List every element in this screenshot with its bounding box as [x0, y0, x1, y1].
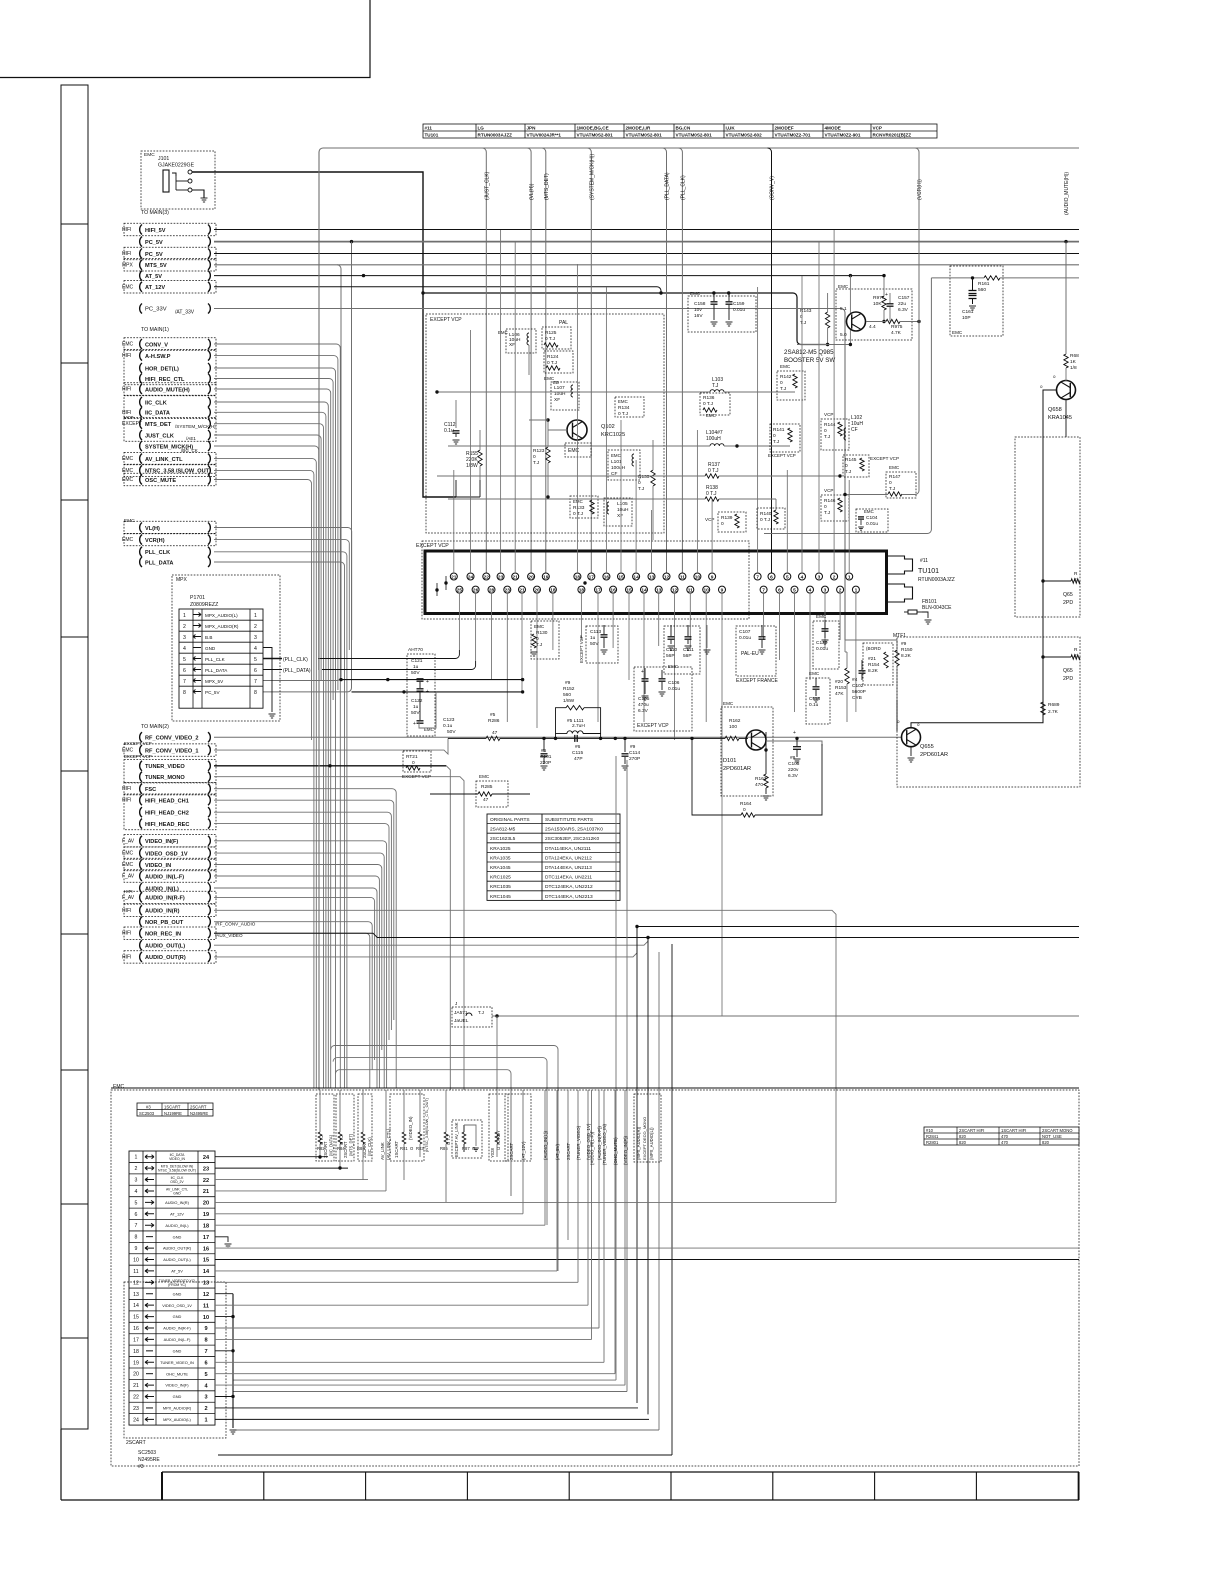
- wire SCART pin 23: [215, 1407, 638, 1409]
- transistor Q985 block: [836, 289, 912, 340]
- svg-text:10: 10: [203, 1315, 209, 1321]
- resistor R125: [542, 327, 571, 349]
- wire (VIDEO_OSD_1V): [587, 1090, 589, 1305]
- svg-text:PC_5V: PC_5V: [145, 240, 163, 246]
- svg-text:CYB: CYB: [852, 695, 862, 701]
- wire SCART pin 12: [215, 1281, 578, 1283]
- svg-text:XF: XF: [509, 342, 515, 348]
- svg-text:RTUN0003AJZZ: RTUN0003AJZZ: [918, 577, 955, 583]
- svg-text:EXCEPT VCP: EXCEPT VCP: [124, 754, 152, 759]
- svg-text:18: 18: [203, 1223, 209, 1229]
- svg-text:18: 18: [133, 1349, 139, 1355]
- svg-text:C120: C120: [816, 640, 828, 646]
- node AUDIO_IN(R-F): [140, 892, 142, 902]
- svg-text:6: 6: [135, 1212, 138, 1218]
- svg-text:5600P: 5600P: [852, 689, 866, 695]
- svg-text:22: 22: [133, 1395, 139, 1401]
- resistor R140: [757, 508, 785, 529]
- svg-text:VTUATM0Z2-901: VTUATM0Z2-901: [825, 133, 861, 138]
- svg-text:Q102: Q102: [601, 424, 615, 430]
- svg-text:19: 19: [543, 574, 549, 580]
- pin TU101 lower-left 4: [519, 586, 526, 593]
- svg-text:R125: R125: [545, 330, 557, 336]
- svg-text:470: 470: [755, 782, 763, 788]
- svg-text:EXCEPT VCP: EXCEPT VCP: [124, 741, 152, 746]
- transistor Q102 KRC1025: [567, 420, 587, 440]
- node HIFI_HEAD_CH2: [140, 807, 142, 817]
- svg-text:3: 3: [818, 574, 821, 580]
- svg-text:C159: C159: [733, 301, 745, 307]
- svg-text:EMC: EMC: [952, 330, 963, 335]
- page frame top-left block: [0, 0, 370, 78]
- svg-text:/AE1: /AE1: [186, 436, 196, 441]
- wire HIFI_REC_CTL: [214, 379, 333, 701]
- svg-text:C104: C104: [866, 515, 878, 521]
- svg-text:R162: R162: [729, 718, 741, 724]
- svg-text:0: 0: [638, 480, 641, 486]
- wire (VIDEO_IN(F)): [624, 1090, 626, 1385]
- svg-text:0: 0: [800, 314, 803, 320]
- svg-text:/AT_33V: /AT_33V: [175, 310, 195, 316]
- svg-text:EMC: EMC: [573, 499, 583, 504]
- pin TU101 lower-right 1: [776, 586, 783, 593]
- resistor R135: [651, 470, 655, 486]
- wire AUDIO_OUT pair right: [637, 926, 1079, 928]
- wire AUDIO_OUT(R): [214, 927, 637, 957]
- svg-text:EMC: EMC: [122, 456, 134, 462]
- capacitor C118: [806, 678, 830, 724]
- svg-text:EMC: EMC: [122, 537, 134, 543]
- svg-text:19: 19: [203, 1212, 209, 1218]
- svg-text:(AUDIO_MUTE(H)): (AUDIO_MUTE(H)): [1064, 172, 1070, 215]
- resistor R285: [476, 781, 508, 807]
- node HOR_DET(L): [140, 363, 142, 373]
- capacitor C112: [455, 400, 457, 428]
- svg-text:C123: C123: [443, 717, 455, 723]
- svg-text:IIC_CLK: IIC_CLK: [145, 400, 167, 406]
- svg-text:26: 26: [473, 588, 479, 594]
- svg-text:AV_LINK_CTL: AV_LINK_CTL: [145, 457, 183, 463]
- svg-text:L105: L105: [617, 501, 628, 507]
- tuner TU101: [425, 551, 887, 614]
- svg-text:0.1u: 0.1u: [809, 702, 819, 708]
- svg-text:18: 18: [550, 588, 556, 594]
- svg-text:NTSC_3.58(SLOW OUT): NTSC_3.58(SLOW OUT): [158, 1169, 196, 1173]
- svg-text:10K: 10K: [873, 301, 882, 307]
- svg-text:#3: #3: [146, 1104, 151, 1109]
- node NOR_REC_IN: [140, 928, 142, 938]
- svg-text:2SCART MONO: 2SCART MONO: [1042, 1128, 1073, 1133]
- resistor R81 1SCART: [390, 1094, 424, 1161]
- svg-text:0 T.J: 0 T.J: [708, 468, 719, 474]
- svg-text:EMC: EMC: [864, 509, 874, 514]
- svg-text:KRC1025: KRC1025: [601, 432, 625, 438]
- pin TU101 lower-mid 9: [719, 586, 726, 593]
- node A-H.SW.P: [140, 351, 142, 361]
- wire RF_CONV_VIDEO_2: [214, 736, 902, 738]
- capacitors C105 C106 EXCEPT VCP: [634, 667, 692, 731]
- svg-text:+: +: [413, 721, 416, 727]
- svg-text:TO MAIN(3): TO MAIN(3): [141, 210, 169, 216]
- node IIC_DATA: [140, 407, 142, 417]
- svg-text:XF: XF: [554, 397, 560, 403]
- svg-text:#20: #20: [835, 679, 843, 685]
- inductor L101: [608, 450, 640, 480]
- svg-text:R285: R285: [481, 784, 493, 790]
- pin TU101 upper-right 2: [784, 573, 791, 580]
- svg-text:AUDIO_IN(R): AUDIO_IN(R): [145, 909, 180, 915]
- pin TU101 upper-mid 7: [679, 573, 686, 580]
- svg-text:0 T.J: 0 T.J: [618, 411, 629, 417]
- wire SCART pin 14: [215, 1304, 588, 1306]
- svg-text:14: 14: [633, 574, 639, 580]
- svg-text:0 T.J: 0 T.J: [545, 336, 556, 342]
- svg-text:#21: #21: [868, 656, 876, 662]
- wire (AUDIO_IN(L-F)): [591, 1090, 593, 1340]
- wire drop (PLL_CLK): [678, 148, 682, 573]
- resistor R2 upper right: [1041, 579, 1044, 582]
- svg-text:1/8W: 1/8W: [466, 463, 478, 469]
- svg-text:HIFI_HEAD_REC: HIFI_HEAD_REC: [145, 822, 189, 828]
- pin TU101 lower-right 3: [807, 586, 814, 593]
- wire VCR(H) drop: [902, 148, 919, 495]
- svg-text:12: 12: [664, 574, 670, 580]
- wire NTSC_3.58 /SLOW_OUT: [214, 470, 314, 1088]
- svg-text:+: +: [885, 292, 888, 298]
- wire HIFI_HEAD_CH1: [214, 800, 394, 1020]
- svg-text:2SC1623L5: 2SC1623L5: [490, 836, 516, 842]
- svg-text:7: 7: [756, 574, 759, 580]
- svg-text:R139: R139: [721, 515, 733, 521]
- svg-text:KRA1025: KRA1025: [490, 846, 511, 852]
- svg-text:0 T.J: 0 T.J: [706, 491, 717, 497]
- resistor R146: [821, 495, 849, 521]
- capacitors C121 C122 AHT70: [407, 654, 435, 736]
- resistor R147: [886, 472, 916, 498]
- svg-text:O: O: [410, 1146, 414, 1151]
- svg-text:16: 16: [604, 574, 610, 580]
- svg-text:R: R: [1074, 647, 1078, 653]
- svg-text:5: 5: [786, 574, 789, 580]
- svg-text:T.J: T.J: [845, 469, 852, 475]
- svg-text:14: 14: [641, 588, 647, 594]
- svg-text:R134: R134: [618, 405, 630, 411]
- svg-text:L101: L101: [611, 459, 622, 465]
- svg-text:/RF_CONV_AUDIO: /RF_CONV_AUDIO: [215, 922, 256, 927]
- svg-text:CF: CF: [851, 427, 858, 433]
- wire CONV_V: [214, 344, 340, 1088]
- svg-text:17: 17: [589, 574, 595, 580]
- svg-text:15: 15: [133, 1315, 139, 1321]
- svg-text:4: 4: [809, 588, 812, 594]
- svg-text:(PLL_DATA): (PLL_DATA): [665, 172, 671, 200]
- svg-text:A-H.SW.P: A-H.SW.P: [145, 354, 171, 360]
- resistor R87 EXCEPT AV_LINK: [452, 1120, 482, 1158]
- node MTS_5V: [140, 260, 142, 270]
- svg-text:12: 12: [133, 1280, 139, 1286]
- svg-text:C113: C113: [590, 629, 601, 635]
- svg-text:10: 10: [704, 588, 710, 594]
- svg-text:DTA114EKA, UN2111: DTA114EKA, UN2111: [545, 846, 591, 852]
- svg-text:22u: 22u: [898, 301, 906, 307]
- svg-text:F_AV: F_AV: [122, 838, 135, 844]
- svg-text:GJAKE0229GE: GJAKE0229GE: [158, 163, 195, 169]
- svg-text:470: 470: [1001, 1140, 1009, 1145]
- svg-text:C103: C103: [788, 761, 800, 767]
- svg-text:PLL_CLK: PLL_CLK: [205, 657, 226, 662]
- svg-text:8.2K: 8.2K: [868, 668, 879, 674]
- svg-text:1u: 1u: [590, 635, 596, 641]
- svg-text:TUNER_VIDEO: TUNER_VIDEO: [145, 764, 185, 770]
- svg-text:C105: C105: [638, 696, 650, 702]
- svg-text:R145: R145: [845, 457, 857, 463]
- node HIFI_HEAD_CH1: [140, 795, 142, 805]
- svg-text:(MPX_AUDIO(L)): (MPX_AUDIO(L)): [649, 1127, 654, 1160]
- wire R147 left lead: [845, 494, 888, 496]
- svg-text:EMC: EMC: [690, 291, 701, 296]
- svg-text:C118: C118: [809, 696, 820, 702]
- svg-text:0: 0: [824, 428, 827, 434]
- jack J101 GJAKE0229GE: [141, 151, 215, 209]
- wire L104 row: [448, 445, 710, 447]
- svg-text:AUDIO_IN(L): AUDIO_IN(L): [145, 886, 179, 892]
- svg-text:HIFI_HEAD_CH1: HIFI_HEAD_CH1: [145, 799, 189, 805]
- svg-text:28: 28: [489, 588, 495, 594]
- svg-text:#3: #3: [138, 1464, 144, 1470]
- svg-text:0 T.J: 0 T.J: [547, 360, 558, 366]
- svg-text:NOR_REC_IN: NOR_REC_IN: [145, 932, 181, 938]
- svg-text:11: 11: [680, 574, 685, 580]
- svg-text:B.B: B.B: [205, 635, 212, 640]
- node PLL_DATA: [140, 557, 142, 567]
- node VIDEO_IN: [140, 860, 142, 870]
- svg-text:I,UK: I,UK: [726, 126, 736, 131]
- pin TU101 lower-right 2: [791, 586, 798, 593]
- capacitor C113: [586, 626, 618, 663]
- svg-text:220P: 220P: [540, 760, 551, 766]
- svg-text:100uH: 100uH: [611, 465, 626, 471]
- svg-text:17: 17: [595, 588, 601, 594]
- svg-text:23: 23: [133, 1406, 139, 1412]
- svg-text:0.01u: 0.01u: [816, 646, 828, 652]
- svg-text:#11: #11: [425, 126, 433, 131]
- svg-text:EMC: EMC: [144, 152, 155, 158]
- wire PC_5V rail: [214, 241, 1079, 243]
- capacitor C107 PAL-EU: [736, 626, 776, 676]
- resistor R86 2SCART: [358, 1094, 372, 1161]
- svg-text:HIFI: HIFI: [122, 908, 131, 914]
- svg-text:21: 21: [519, 588, 525, 594]
- svg-text:#5: #5: [490, 712, 496, 718]
- wire SCART pin 19: [215, 1361, 604, 1363]
- pin TU101 upper-mid 6: [663, 573, 670, 580]
- tuner RF connector 1: [887, 556, 913, 574]
- resistor R145: [843, 455, 869, 477]
- svg-text:2PD601AR: 2PD601AR: [920, 752, 948, 758]
- wire R138 row: [448, 498, 705, 500]
- resistor R142: [777, 371, 805, 400]
- svg-text:6.3V: 6.3V: [638, 708, 649, 714]
- svg-text:0.01u: 0.01u: [733, 307, 745, 313]
- svg-text:EMC: EMC: [889, 465, 900, 470]
- svg-text:GND: GND: [173, 1348, 182, 1353]
- svg-text:VIDEO_OSD_1V: VIDEO_OSD_1V: [145, 851, 188, 857]
- dashed box 2SCART pair: [505, 1094, 531, 1161]
- svg-text:6: 6: [778, 588, 781, 594]
- svg-text:Q65: Q65: [1063, 668, 1073, 674]
- svg-text:15: 15: [618, 574, 624, 580]
- pin TU101 lower-left 6: [549, 586, 556, 593]
- svg-text:T.J: T.J: [712, 383, 719, 389]
- svg-text:(AUDIO_IN(L-F)): (AUDIO_IN(L-F)): [590, 1131, 595, 1165]
- svg-text:MPX: MPX: [122, 262, 134, 268]
- dashed region EXCEPT VCP main: [426, 314, 664, 533]
- svg-text:R84: R84: [337, 1146, 345, 1151]
- node TUNER_VIDEO: [140, 761, 142, 771]
- svg-text:(TUNER_VIDEO_IN): (TUNER_VIDEO_IN): [602, 1123, 607, 1165]
- svg-text:VTUATM0S2-801: VTUATM0S2-801: [577, 133, 614, 138]
- svg-text:AT_12V: AT_12V: [170, 1211, 184, 1216]
- dashed region 2SCART: [124, 1282, 226, 1438]
- svg-text:15: 15: [203, 1258, 209, 1264]
- svg-text:R689: R689: [1048, 702, 1060, 708]
- svg-text:56P: 56P: [683, 653, 692, 659]
- svg-text:17: 17: [203, 1235, 209, 1241]
- wire VCR(H): [214, 540, 349, 650]
- svg-text:XF: XF: [617, 513, 623, 519]
- pin TU101 upper-mid 5: [648, 573, 655, 580]
- svg-text:/SYSTEM_M/CK(H): /SYSTEM_M/CK(H): [175, 424, 216, 429]
- svg-text:18: 18: [579, 588, 585, 594]
- svg-text:50V: 50V: [447, 729, 456, 735]
- svg-text:11: 11: [203, 1303, 209, 1309]
- node AT_12V: [140, 282, 142, 292]
- wire SCART pin 2: [215, 1167, 348, 1169]
- svg-text:560: 560: [978, 287, 986, 293]
- svg-text:PC_33V: PC_33V: [145, 307, 167, 313]
- svg-text:15: 15: [626, 588, 632, 594]
- svg-text:R133: R133: [573, 505, 585, 511]
- resistor R2 lower right: [1041, 655, 1044, 658]
- node PC_33V: [140, 304, 142, 314]
- node AV_LINK_CTL: [140, 454, 142, 464]
- wires TU101 upper pin drops: [453, 470, 455, 573]
- node MTS_DET: [140, 419, 142, 429]
- svg-text:AUDIO_OUT(R): AUDIO_OUT(R): [145, 955, 186, 961]
- dashed region MTF1: [897, 637, 1080, 787]
- wire (AUDIO_IN(L)): [544, 1090, 546, 1225]
- svg-text:C122: C122: [411, 698, 423, 704]
- svg-text:RF_CONV_VIDEO_2: RF_CONV_VIDEO_2: [145, 736, 198, 742]
- scart id table: [137, 1103, 213, 1116]
- svg-text:1: 1: [204, 1418, 207, 1424]
- wire (TUNER_VIDEO): [577, 1090, 579, 1282]
- svg-text:CONV_V: CONV_V: [145, 342, 168, 348]
- pin TU101 upper-left 3: [497, 573, 504, 580]
- svg-text:NTSC_3.58 /SLOW_OUT: NTSC_3.58 /SLOW_OUT: [145, 469, 210, 475]
- svg-text:R136: R136: [703, 395, 715, 401]
- svg-text:AT_5V: AT_5V: [171, 1269, 183, 1274]
- node NOR_PB_OUT: [140, 917, 142, 927]
- svg-text:(JUST_CLK): (JUST_CLK): [484, 171, 490, 200]
- wire drop (JUST_CLK): [482, 148, 486, 573]
- node PLL_DATA stub: [263, 669, 282, 671]
- svg-text:8: 8: [183, 690, 186, 696]
- svg-text:2: 2: [833, 574, 836, 580]
- bottom title block row: [61, 1499, 1079, 1501]
- wire MTS_DET: [214, 424, 324, 1088]
- svg-text:16: 16: [203, 1246, 209, 1252]
- wire bus top of SCART: [111, 1087, 1079, 1089]
- svg-text:OHC_MUTE: OHC_MUTE: [166, 1371, 188, 1376]
- svg-text:R85: R85: [440, 1146, 448, 1151]
- svg-text:MPX_AUDIO(L): MPX_AUDIO(L): [205, 613, 238, 618]
- pin TU101 lower-mid 6: [671, 586, 678, 593]
- resistor R136: [700, 393, 730, 415]
- svg-text:EMC: EMC: [668, 664, 679, 669]
- wire AUDIO_IN(L-F): [214, 876, 379, 1088]
- dashed region right upper: [1015, 437, 1080, 617]
- wire SCART pin 3: [215, 1179, 368, 1181]
- wires TU101 lower pin drops: [458, 593, 460, 650]
- svg-text:R975: R975: [891, 324, 903, 330]
- svg-text:0: 0: [824, 504, 827, 510]
- svg-text:SUBSITITUTE PARTS: SUBSITITUTE PARTS: [545, 817, 593, 823]
- svg-text:VTUATM0S2-801: VTUATM0S2-801: [676, 133, 713, 138]
- svg-text:0.1u: 0.1u: [443, 723, 453, 729]
- svg-text:2PD: 2PD: [1063, 600, 1073, 606]
- svg-text:TU101: TU101: [425, 133, 439, 138]
- node PLL_CLK stub: [263, 658, 282, 660]
- svg-text:13: 13: [656, 588, 662, 594]
- svg-text:0 T.J: 0 T.J: [703, 401, 714, 407]
- svg-text:Q65: Q65: [1063, 592, 1073, 598]
- svg-text:EXCEPT DECO_MONO: EXCEPT DECO_MONO: [642, 1117, 647, 1160]
- svg-text:2SCART: 2SCART: [566, 1142, 571, 1160]
- svg-text:3: 3: [254, 635, 257, 641]
- svg-text:0.01u: 0.01u: [866, 521, 878, 527]
- svg-text:EXCEPT VCP: EXCEPT VCP: [579, 635, 584, 663]
- wire audio bus verticals: [615, 756, 617, 1380]
- wire SCART pin 20: [215, 1373, 615, 1375]
- wire AV_LINK_CTL: [214, 459, 316, 1088]
- svg-text:VCP: VCP: [873, 126, 882, 131]
- svg-text:2: 2: [183, 624, 186, 630]
- wire TUNER_VIDEO: [214, 765, 446, 767]
- svg-text:R123: R123: [533, 448, 545, 454]
- wire SCART pin 24: [215, 1418, 649, 1420]
- node AUDIO_MUTE(H): [140, 384, 142, 394]
- svg-text:ORIGINAL PARTS: ORIGINAL PARTS: [490, 817, 530, 823]
- wire AUDIO_IN(L): [214, 888, 377, 1088]
- svg-text:JPN: JPN: [527, 126, 537, 131]
- svg-text:VIDEO_IN(F): VIDEO_IN(F): [165, 1383, 189, 1388]
- svg-text:1: 1: [183, 613, 186, 619]
- wire TUNER_MONO: [214, 777, 464, 1090]
- node TUNER_MONO: [140, 772, 142, 782]
- svg-text:6.3V: 6.3V: [788, 773, 799, 779]
- svg-text:5: 5: [204, 1372, 207, 1378]
- connector P1701 MPX: [172, 575, 280, 721]
- svg-text:2SCART: 2SCART: [126, 1440, 146, 1446]
- svg-text:470u: 470u: [638, 702, 649, 708]
- svg-text:DTC114EKA, UN2211: DTC114EKA, UN2211: [545, 875, 592, 881]
- svg-text:8: 8: [135, 1235, 138, 1241]
- svg-text:R161: R161: [978, 281, 990, 287]
- svg-text:R141: R141: [773, 427, 785, 433]
- pin TU101 lower-mid 7: [687, 586, 694, 593]
- wire SCART pin 6: [215, 1213, 523, 1215]
